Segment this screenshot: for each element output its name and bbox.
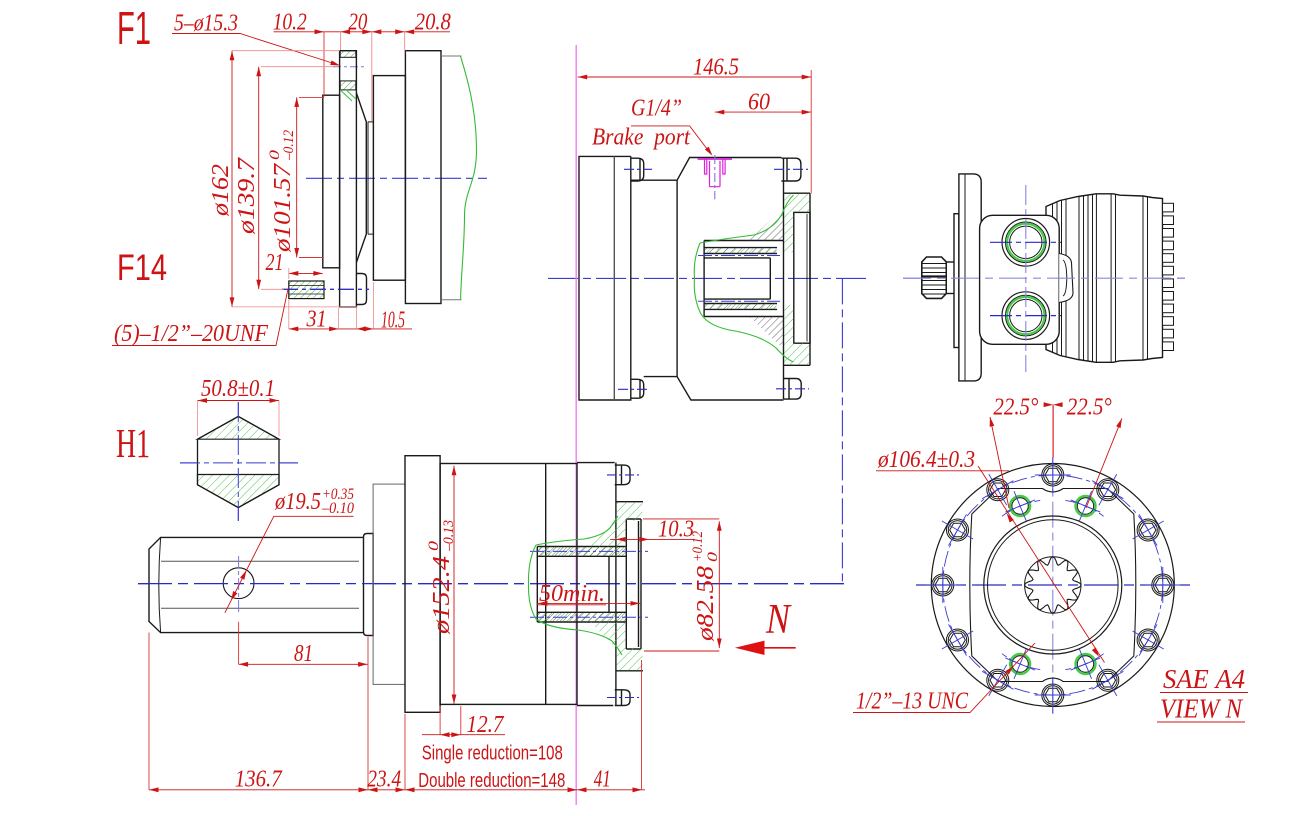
bolt centerline crosshairs bbox=[925, 457, 1181, 713]
top bolt boss F bbox=[615, 463, 630, 485]
outer circle bbox=[931, 464, 1174, 707]
svg-text:41: 41 bbox=[594, 767, 611, 793]
svg-text:F1: F1 bbox=[117, 2, 151, 54]
dim 10.3 bbox=[643, 518, 719, 520]
bearing plate B bbox=[405, 456, 440, 713]
dim 12.7 bbox=[439, 706, 441, 735]
svg-text:22.5°: 22.5° bbox=[1067, 395, 1112, 421]
dim o162 bbox=[231, 51, 233, 307]
shaft body bbox=[149, 537, 364, 632]
svg-text:21: 21 bbox=[266, 250, 284, 276]
brake port (magenta) bbox=[698, 159, 732, 187]
hexagon bbox=[198, 416, 280, 507]
hub bbox=[704, 241, 783, 317]
dim 60 bbox=[715, 111, 811, 113]
svg-text:ø152.4: ø152.4 bbox=[429, 556, 455, 635]
main gear housing bbox=[440, 464, 577, 705]
collar bbox=[364, 534, 374, 636]
svg-text:20.8: 20.8 bbox=[415, 10, 451, 36]
casting contour bbox=[970, 489, 1136, 682]
flange plate bbox=[340, 51, 357, 307]
centerline bbox=[548, 277, 868, 279]
dim 146.5 bbox=[578, 76, 812, 78]
housing rib lines bbox=[1053, 194, 1148, 362]
bottom-left bolt boss bbox=[631, 379, 644, 398]
motor housing outline bbox=[1046, 194, 1163, 362]
svg-text:–0.13: –0.13 bbox=[441, 520, 457, 552]
spline lines on shaft bbox=[922, 264, 947, 295]
svg-text:N: N bbox=[765, 597, 792, 643]
bottom bolt boss F bbox=[615, 690, 630, 706]
right flange steps bbox=[784, 193, 811, 365]
body left block bbox=[323, 51, 441, 307]
svg-text:136.7: 136.7 bbox=[235, 767, 283, 793]
shaft neck bbox=[946, 262, 955, 294]
12 mounting bolts on R110 bolt circle bbox=[932, 464, 1174, 706]
svg-text:F14: F14 bbox=[117, 247, 167, 288]
svg-text:0: 0 bbox=[426, 540, 442, 551]
svg-text:ø162: ø162 bbox=[208, 164, 234, 217]
svg-text:–0.10: –0.10 bbox=[321, 500, 354, 517]
svg-text:5–ø15.3: 5–ø15.3 bbox=[174, 11, 238, 37]
svg-text:ø139.7: ø139.7 bbox=[234, 157, 260, 235]
svg-text:81: 81 bbox=[294, 641, 313, 667]
bottom nut cap bbox=[356, 274, 366, 305]
hex flats bbox=[161, 560, 359, 562]
dim o139.7 bbox=[258, 67, 260, 290]
splined input shaft bbox=[922, 257, 947, 298]
svg-text:ø19.5: ø19.5 bbox=[274, 489, 321, 515]
svg-text:G1/4”: G1/4” bbox=[631, 96, 682, 122]
stud centerline bottom bbox=[282, 288, 369, 290]
dim o82.58 bbox=[718, 521, 720, 648]
svg-text:20: 20 bbox=[348, 10, 367, 36]
bottom-right bolt boss bbox=[784, 379, 802, 400]
chamfer diagonals right of plate bbox=[356, 93, 366, 263]
dim 50.8+-0.1 bbox=[198, 400, 280, 402]
svg-text:50.8±0.1: 50.8±0.1 bbox=[201, 376, 275, 402]
step + chamfers bbox=[631, 158, 784, 401]
side tab bbox=[1059, 254, 1073, 303]
centerline horizontal bbox=[306, 177, 487, 179]
green break line bbox=[461, 57, 477, 300]
dim 31 / 10.5 bbox=[289, 328, 412, 330]
svg-text:+0.12: +0.12 bbox=[690, 531, 706, 562]
top-right bolt boss bbox=[781, 158, 801, 181]
flange plate bbox=[959, 174, 981, 381]
big housing block bbox=[405, 51, 441, 304]
geometry bbox=[579, 156, 810, 400]
svg-text:23.4: 23.4 bbox=[367, 767, 401, 793]
svg-text:10.2: 10.2 bbox=[273, 10, 307, 36]
svg-text:1/2”–13 UNC: 1/2”–13 UNC bbox=[856, 689, 969, 715]
rear gear teeth silhouette bbox=[1163, 203, 1174, 350]
hatch: below bolt hole bbox=[340, 81, 356, 90]
centerline bbox=[903, 277, 1190, 279]
right piece with break (gray) bbox=[441, 56, 462, 300]
bolt circle (blue dash-dot) bbox=[943, 475, 1163, 695]
dim 136.7 / 23.4 bottom chain bbox=[148, 633, 150, 790]
svg-text:0: 0 bbox=[705, 551, 721, 562]
svg-text:50min.: 50min. bbox=[539, 581, 605, 607]
stud (5)-1/2-20UNF bbox=[289, 281, 324, 299]
centerlines bbox=[237, 402, 239, 523]
bore bbox=[537, 547, 626, 623]
dim o19.5 leader bbox=[225, 516, 354, 613]
seal ring bbox=[368, 122, 373, 234]
rear block bbox=[579, 156, 631, 400]
dim 21 bbox=[289, 272, 323, 274]
main body right edge bbox=[783, 158, 785, 400]
svg-text:22.5°: 22.5° bbox=[993, 395, 1038, 421]
hub bore centerlines bbox=[698, 255, 780, 257]
left sub plate bbox=[954, 214, 959, 348]
svg-text:12.7: 12.7 bbox=[467, 712, 505, 738]
bolt hole centerline top bbox=[333, 66, 365, 68]
hatch areas bbox=[590, 502, 643, 670]
dimensions: top chain 10.2 / 20 / 20.8 bbox=[274, 32, 451, 121]
right flange block bbox=[577, 463, 643, 706]
port centerlines bbox=[990, 241, 1061, 243]
svg-text:ø101.57: ø101.57 bbox=[270, 163, 296, 253]
port body bbox=[980, 215, 1060, 344]
4 UNC threaded holes (green) on R85.5 bbox=[1076, 654, 1096, 674]
hatch areas (green) bbox=[705, 194, 810, 365]
ext line for 41 bbox=[641, 660, 643, 790]
pilot spigot bbox=[626, 519, 641, 649]
svg-text:(5)–1/2”–20UNF: (5)–1/2”–20UNF bbox=[114, 321, 268, 347]
hatch: flange top land bbox=[340, 51, 356, 58]
svg-text:ø82.58: ø82.58 bbox=[693, 566, 719, 642]
svg-text:60: 60 bbox=[748, 90, 770, 116]
svg-text:H1: H1 bbox=[116, 420, 150, 466]
green outline freeform F bbox=[528, 545, 622, 655]
bearing plate A bbox=[373, 484, 405, 684]
svg-text:Single reduction=108: Single reduction=108 bbox=[422, 742, 563, 765]
svg-text:Double reduction=148: Double reduction=148 bbox=[418, 769, 565, 792]
pilot circles bbox=[984, 516, 1122, 654]
port rings bbox=[1002, 219, 1050, 340]
svg-text:Brake port: Brake port bbox=[592, 125, 691, 151]
top-left bolt boss bbox=[631, 158, 644, 181]
svg-text:ø106.4±0.3: ø106.4±0.3 bbox=[877, 447, 975, 473]
boss centerlines bbox=[624, 168, 652, 170]
housing joint line bbox=[545, 464, 547, 705]
boss centerlines F bbox=[607, 474, 639, 476]
dim 81 bbox=[238, 622, 240, 665]
cross hole bbox=[223, 568, 254, 599]
svg-text:10.5: 10.5 bbox=[381, 308, 405, 334]
svg-text:10.3: 10.3 bbox=[658, 517, 694, 543]
gearbox front section bbox=[373, 76, 405, 281]
svg-text:SAE A4: SAE A4 bbox=[1163, 664, 1245, 694]
dim 50min bbox=[537, 602, 641, 604]
centerlines bbox=[916, 584, 1190, 586]
bore thread centerlines bbox=[530, 550, 648, 552]
svg-text:31: 31 bbox=[306, 307, 327, 333]
output spline bbox=[1025, 557, 1082, 614]
svg-text:–0.12: –0.12 bbox=[281, 130, 297, 161]
centerline through shaft and gearbox bbox=[138, 583, 845, 585]
svg-text:VIEW N: VIEW N bbox=[1160, 694, 1244, 724]
green outline freeform bbox=[694, 243, 793, 362]
angular dim 22.5 x2 bbox=[1052, 405, 1054, 458]
svg-text:146.5: 146.5 bbox=[693, 55, 739, 81]
dim o101.57 0/-0.12 bbox=[296, 97, 298, 257]
magenta projection line bbox=[575, 45, 577, 805]
dim o152.4 bbox=[453, 466, 455, 704]
